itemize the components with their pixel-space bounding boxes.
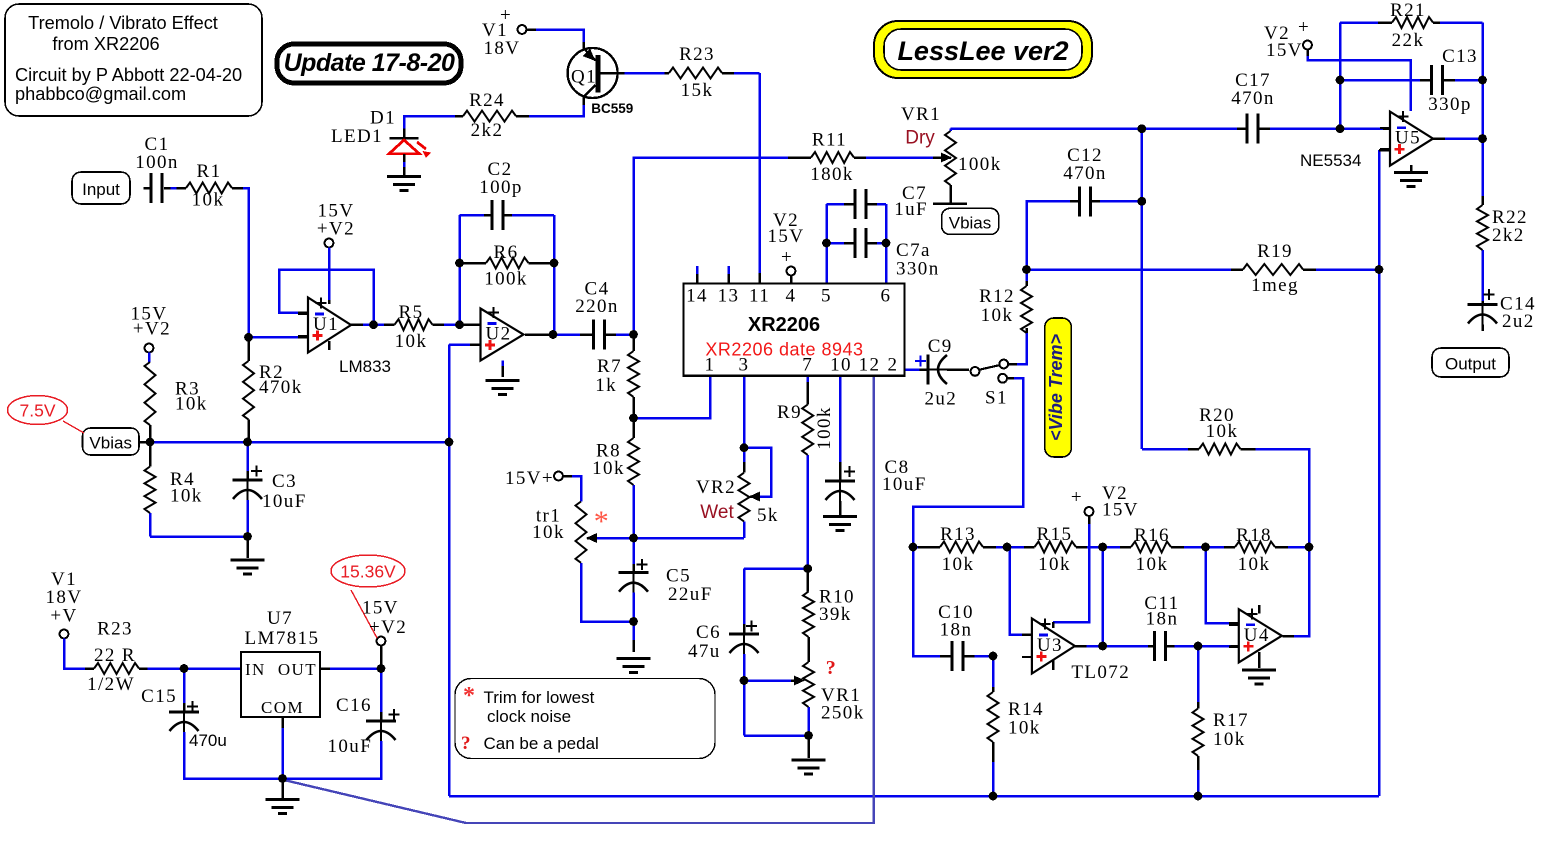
svg-text:10: 10 [830,355,852,376]
svg-text:15V: 15V [362,598,399,619]
svg-text:R21: R21 [1390,0,1426,21]
svg-text:330n: 330n [896,259,940,280]
svg-text:+V: +V [50,606,77,627]
svg-text:10uF: 10uF [328,736,373,757]
svg-text:R24: R24 [469,90,505,111]
svg-text:R11: R11 [812,130,847,151]
svg-text:10k: 10k [981,305,1014,326]
svg-text:220n: 220n [575,296,619,317]
svg-text:clock noise: clock noise [487,707,571,726]
svg-text:1k: 1k [595,375,617,396]
svg-text:10k: 10k [1206,421,1239,442]
svg-text:3: 3 [739,355,750,376]
svg-text:R23: R23 [97,619,133,640]
svg-text:U7: U7 [267,608,293,629]
svg-text:R6: R6 [494,242,519,263]
svg-text:R18: R18 [1236,525,1272,546]
svg-text:R17: R17 [1213,710,1249,731]
svg-text:22uF: 22uF [668,584,713,605]
svg-text:7.5V: 7.5V [20,401,56,421]
svg-text:Input: Input [82,180,120,199]
svg-text:250k: 250k [821,703,865,724]
svg-text:BC559: BC559 [591,101,633,116]
svg-text:39k: 39k [819,604,852,625]
svg-text:IN: IN [245,660,266,679]
svg-text:S1: S1 [985,387,1008,408]
svg-text:10k: 10k [395,331,428,352]
svg-text:C9: C9 [928,336,953,357]
svg-text:2u2: 2u2 [925,389,958,410]
svg-text:2k2: 2k2 [471,120,504,141]
svg-text:11: 11 [749,286,770,307]
svg-text:10k: 10k [1238,554,1271,575]
svg-text:10uF: 10uF [882,474,927,495]
svg-text:10k: 10k [1213,729,1246,750]
svg-text:Trim for lowest: Trim for lowest [484,688,595,707]
svg-text:from XR2206: from XR2206 [52,34,159,54]
svg-text:100k: 100k [484,269,528,290]
svg-text:R12: R12 [979,286,1015,307]
svg-text:TL072: TL072 [1071,662,1130,683]
svg-text:R13: R13 [940,524,976,545]
svg-text:18V: 18V [484,38,521,59]
svg-text:2: 2 [888,355,899,376]
svg-text:15V: 15V [1102,500,1139,521]
svg-text:R1: R1 [197,161,222,182]
svg-text:4: 4 [786,286,797,307]
svg-text:22k: 22k [1392,30,1425,51]
svg-text:VR1: VR1 [901,104,941,125]
svg-text:Output: Output [1445,355,1496,374]
svg-text:+V2: +V2 [317,219,355,240]
svg-text:+V2: +V2 [133,319,171,340]
svg-text:18n: 18n [1146,609,1179,630]
svg-text:10k: 10k [175,394,208,415]
svg-text:+: + [781,247,793,268]
svg-text:?: ? [826,657,837,679]
svg-text:100n: 100n [135,152,179,173]
svg-text:phabbco@gmail.com: phabbco@gmail.com [15,84,186,104]
svg-text:18n: 18n [940,620,973,641]
svg-text:470k: 470k [259,377,303,398]
svg-text:R5: R5 [399,302,424,323]
svg-text:10k: 10k [170,486,203,507]
svg-text:Tremolo / Vibrato Effect: Tremolo / Vibrato Effect [28,13,218,33]
svg-text:1: 1 [705,355,716,376]
svg-text:15k: 15k [681,80,714,101]
svg-text:10k: 10k [532,522,565,543]
svg-text:LM7815: LM7815 [245,628,320,649]
svg-text:Can be a pedal: Can be a pedal [484,734,599,753]
svg-text:C6: C6 [696,622,721,643]
svg-text:10uF: 10uF [262,491,307,512]
svg-text:10k: 10k [1038,554,1071,575]
svg-text:*: * [594,505,610,538]
svg-text:470n: 470n [1231,88,1275,109]
svg-text:OUT: OUT [278,660,317,679]
svg-text:C13: C13 [1442,46,1478,67]
svg-text:<Vibe Trem>: <Vibe Trem> [1046,333,1066,441]
svg-text:100k: 100k [814,406,835,450]
svg-text:5: 5 [821,286,832,307]
svg-text:+V2: +V2 [369,617,407,638]
svg-text:LED1: LED1 [331,126,383,147]
svg-text:R16: R16 [1134,525,1170,546]
svg-text:470u: 470u [189,731,227,750]
svg-text:Vbias: Vbias [949,214,992,233]
svg-text:5k: 5k [757,505,779,526]
svg-text:R7: R7 [597,356,622,377]
svg-text:10k: 10k [592,458,625,479]
svg-text:180k: 180k [810,164,854,185]
svg-text:NE5534: NE5534 [1300,151,1361,170]
svg-text:C3: C3 [272,471,297,492]
svg-text:10k: 10k [1008,718,1041,739]
svg-text:Q1: Q1 [571,66,597,87]
svg-text:R19: R19 [1257,241,1293,262]
svg-text:+: + [1071,487,1083,508]
svg-text:Dry: Dry [905,128,935,149]
svg-text:C15: C15 [141,686,177,707]
svg-text:+: + [1298,17,1310,38]
svg-text:22 R: 22 R [94,645,136,666]
svg-text:1uF: 1uF [894,199,928,220]
svg-text:10k: 10k [942,554,975,575]
svg-text:XR2206: XR2206 [748,314,820,336]
svg-text:VR2: VR2 [696,477,736,498]
svg-text:2u2: 2u2 [1502,311,1535,332]
svg-text:15.36V: 15.36V [340,562,396,582]
svg-text:COM: COM [261,698,304,717]
svg-text:?: ? [461,733,472,754]
svg-text:15V: 15V [768,226,805,247]
svg-text:6: 6 [881,286,892,307]
svg-text:*: * [463,683,476,709]
svg-text:Wet: Wet [700,502,734,523]
svg-text:7: 7 [802,355,813,376]
svg-text:LM833: LM833 [339,357,391,376]
svg-text:330p: 330p [1428,94,1472,115]
svg-text:15V+: 15V+ [505,468,554,489]
svg-text:12: 12 [859,355,881,376]
svg-text:R9: R9 [777,402,802,423]
svg-text:C16: C16 [336,695,372,716]
svg-text:47u: 47u [688,641,721,662]
svg-text:10k: 10k [1136,554,1169,575]
svg-text:2k2: 2k2 [1492,225,1525,246]
svg-text:Circuit by P Abbott 22-04-20: Circuit by P Abbott 22-04-20 [15,65,242,85]
svg-text:R23: R23 [679,44,715,65]
svg-text:LessLee ver2: LessLee ver2 [897,36,1068,66]
svg-text:10k: 10k [192,190,225,211]
svg-text:100p: 100p [479,177,523,198]
svg-text:1meg: 1meg [1251,275,1299,296]
svg-text:Vbias: Vbias [89,434,132,453]
svg-text:Update 17-8-20: Update 17-8-20 [284,49,455,77]
svg-text:100k: 100k [958,154,1002,175]
svg-text:13: 13 [718,286,740,307]
svg-text:14: 14 [686,286,708,307]
svg-text:15V: 15V [1266,40,1303,61]
svg-text:R15: R15 [1037,524,1073,545]
svg-text:470n: 470n [1063,163,1107,184]
svg-text:1/2W: 1/2W [87,674,135,695]
